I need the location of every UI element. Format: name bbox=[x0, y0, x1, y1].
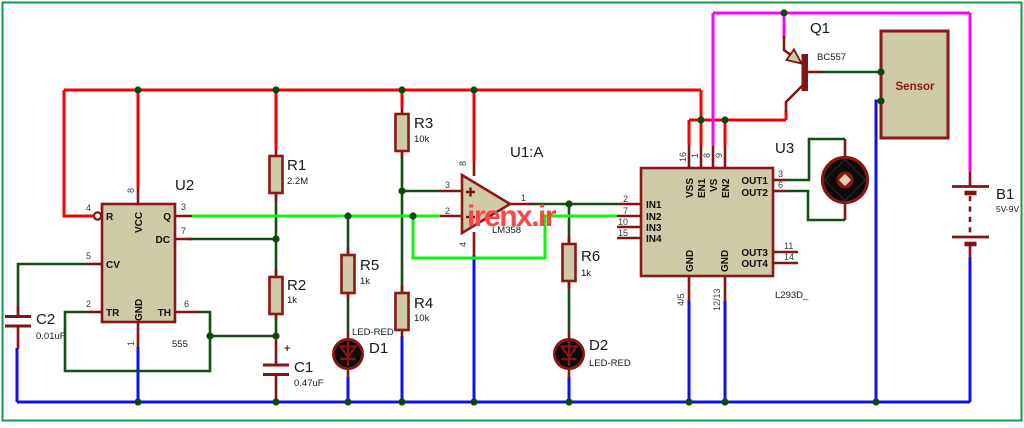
svg-text:CV: CV bbox=[106, 260, 120, 271]
wire magenta drop to battery B1 bbox=[969, 13, 972, 172]
svg-text:IN2: IN2 bbox=[646, 212, 662, 223]
junction VCC rail / R1 bbox=[272, 86, 279, 93]
junction VCC rail / U1 pin8 bbox=[470, 86, 477, 93]
junction ground bus / R4 bbox=[398, 398, 405, 405]
svg-text:4: 4 bbox=[458, 242, 468, 247]
resistor R3 10k bbox=[396, 107, 434, 158]
svg-text:GND: GND bbox=[134, 299, 145, 321]
svg-text:VSS: VSS bbox=[685, 178, 696, 198]
wire green R3 bottom to node bbox=[401, 150, 404, 191]
svg-text:4/5: 4/5 bbox=[676, 293, 686, 306]
svg-text:2: 2 bbox=[86, 299, 91, 309]
capacitor C1 0.47uF polarized bbox=[263, 336, 324, 402]
svg-text:15: 15 bbox=[618, 228, 628, 238]
wire red rail above U3 bbox=[689, 119, 786, 122]
junction ground bus / D1 bbox=[344, 398, 351, 405]
op-amp U1:A LM358 bbox=[440, 144, 543, 256]
wire green R6 bottom to D2 bbox=[568, 282, 571, 333]
555 timer U2 bbox=[86, 177, 199, 350]
junction ground bus / U3 GND 12/13 bbox=[721, 398, 728, 405]
svg-text:D1: D1 bbox=[369, 340, 388, 357]
svg-text:5: 5 bbox=[86, 251, 91, 261]
svg-text:C2: C2 bbox=[36, 311, 55, 328]
svg-text:U1:A: U1:A bbox=[510, 144, 543, 161]
wire magenta drop to Q1 emitter bbox=[783, 13, 786, 38]
wire blue D2 to bus bbox=[568, 377, 571, 402]
svg-text:11: 11 bbox=[784, 241, 793, 251]
wire red bus corner down to U3 rail bbox=[700, 90, 703, 120]
svg-text:7: 7 bbox=[181, 226, 186, 236]
svg-text:Q1: Q1 bbox=[810, 20, 830, 37]
svg-text:R4: R4 bbox=[414, 295, 433, 312]
junction Q output / feedback loop node bbox=[409, 212, 416, 219]
svg-text:4: 4 bbox=[86, 203, 91, 213]
wire green OUT2 to motor bottom bbox=[786, 191, 845, 220]
svg-text:irenx.ir: irenx.ir bbox=[467, 200, 557, 233]
svg-text:0.47uF: 0.47uF bbox=[294, 378, 324, 389]
wire lime feedback loop under U1 bbox=[413, 216, 617, 258]
wire red VCC drop to U2 pin8 bbox=[137, 90, 140, 187]
svg-text:Sensor: Sensor bbox=[896, 81, 936, 93]
svg-text:U2: U2 bbox=[175, 177, 194, 194]
resistor R6 1k bbox=[563, 236, 601, 289]
svg-text:IN3: IN3 bbox=[646, 223, 662, 234]
svg-text:VCC: VCC bbox=[134, 212, 145, 233]
junction Q1 base / sensor bbox=[877, 68, 884, 75]
svg-text:OUT2: OUT2 bbox=[741, 188, 768, 199]
transistor Q1 BC557 PNP bbox=[784, 20, 846, 112]
wire blue sensor to bus bbox=[876, 101, 881, 402]
wire green Q1 base to sensor bbox=[822, 71, 881, 74]
wire green TH junction branch bbox=[210, 335, 276, 338]
junction VCC rail / U2 pin8 bbox=[134, 86, 141, 93]
svg-text:IN4: IN4 bbox=[646, 234, 662, 245]
wire blue battery to bus bbox=[969, 257, 972, 402]
svg-text:10: 10 bbox=[618, 217, 628, 227]
wire magenta top bus bbox=[713, 12, 970, 15]
wire red drop to R1 bbox=[275, 90, 278, 149]
svg-text:U3: U3 bbox=[775, 140, 794, 157]
svg-text:14: 14 bbox=[784, 252, 794, 262]
svg-text:3: 3 bbox=[181, 202, 186, 212]
wire green R2 bottom to junction bbox=[275, 314, 278, 336]
junction ground bus / U2 GND bbox=[134, 398, 141, 405]
svg-text:OUT4: OUT4 bbox=[741, 259, 768, 270]
wire blue R4 to bus bbox=[401, 336, 404, 402]
wire green R5 top tap bbox=[347, 216, 350, 254]
wire blue U2 GND to bus bbox=[137, 347, 140, 402]
svg-text:C1: C1 bbox=[294, 359, 313, 376]
svg-text:L293D_: L293D_ bbox=[775, 290, 809, 301]
svg-text:R6: R6 bbox=[581, 248, 600, 265]
svg-text:1: 1 bbox=[126, 341, 136, 346]
svg-text:1: 1 bbox=[690, 153, 700, 158]
svg-text:R5: R5 bbox=[360, 257, 379, 274]
junction DC node bbox=[272, 235, 279, 242]
svg-text:8: 8 bbox=[702, 153, 712, 158]
svg-text:8: 8 bbox=[458, 161, 468, 166]
svg-text:10k: 10k bbox=[414, 313, 430, 324]
svg-text:1k: 1k bbox=[581, 268, 591, 279]
svg-text:0.01uF: 0.01uF bbox=[36, 331, 66, 342]
junction sensor / ground drop bbox=[877, 97, 884, 104]
svg-text:LED-RED: LED-RED bbox=[352, 327, 394, 338]
svg-text:OUT1: OUT1 bbox=[741, 176, 768, 187]
resistor R1 2.2M bbox=[270, 149, 309, 201]
svg-text:DC: DC bbox=[156, 235, 170, 246]
svg-text:VS: VS bbox=[709, 178, 720, 192]
wire red left drop to U2 pin4 bbox=[64, 90, 93, 216]
svg-text:2: 2 bbox=[623, 194, 628, 204]
svg-text:TH: TH bbox=[158, 308, 171, 319]
svg-text:B1: B1 bbox=[996, 186, 1014, 203]
svg-text:10k: 10k bbox=[414, 134, 430, 145]
svg-text:555: 555 bbox=[172, 339, 188, 350]
junction U1 out / R6 node bbox=[565, 200, 572, 207]
wire red drop to U1 pin8 bbox=[473, 90, 476, 161]
junction TR-TH loop tap bbox=[206, 332, 213, 339]
svg-text:R2: R2 bbox=[287, 277, 306, 294]
wire green CV to C2 bbox=[18, 264, 88, 317]
junction ground bus / D2 bbox=[565, 398, 572, 405]
svg-text:12/13: 12/13 bbox=[712, 288, 722, 311]
wire red top power bus bbox=[64, 89, 701, 92]
wire red EN2 drop bbox=[724, 120, 727, 145]
svg-text:OUT3: OUT3 bbox=[741, 248, 768, 259]
svg-text:GND: GND bbox=[720, 250, 731, 272]
junction ground bus / U3 GND 4/5 bbox=[685, 398, 692, 405]
svg-text:5V-9V: 5V-9V bbox=[996, 204, 1019, 214]
wire green R6 top tap bbox=[568, 204, 571, 243]
sensor block bbox=[881, 31, 948, 138]
svg-text:R: R bbox=[106, 212, 114, 223]
svg-text:1k: 1k bbox=[287, 295, 297, 306]
wire blue bottom ground bus bbox=[17, 401, 970, 404]
LED D2 LED-RED bbox=[555, 332, 631, 378]
svg-text:2: 2 bbox=[445, 206, 450, 216]
svg-text:D2: D2 bbox=[589, 337, 608, 354]
junction VCC rail / R3 bbox=[398, 86, 405, 93]
svg-text:6: 6 bbox=[778, 180, 783, 190]
junction ground bus / sensor bbox=[872, 398, 879, 405]
junction TH / R2 / C1 node bbox=[272, 332, 279, 339]
svg-text:16: 16 bbox=[678, 152, 688, 162]
wire red drop to R3 bbox=[401, 90, 404, 107]
wire red EN1 drop bbox=[700, 120, 703, 145]
svg-text:EN1: EN1 bbox=[697, 178, 708, 198]
wire blue D1 to bus bbox=[347, 377, 350, 402]
svg-text:+: + bbox=[284, 343, 290, 355]
wire blue C2 to bus bbox=[16, 348, 19, 402]
svg-text:GND: GND bbox=[685, 250, 696, 272]
wire lime Q output row bbox=[192, 215, 440, 218]
svg-text:8: 8 bbox=[126, 188, 136, 193]
wire blue U3 GND 12/13 to bus bbox=[724, 301, 727, 402]
svg-text:IN1: IN1 bbox=[646, 200, 662, 211]
wire green TR loop bbox=[65, 312, 210, 371]
wire green node down to R4 bbox=[401, 191, 404, 292]
wire green R1 to R2 column bbox=[275, 193, 278, 278]
svg-text:R3: R3 bbox=[414, 115, 433, 132]
capacitor C2 0.01uF bbox=[5, 305, 66, 349]
motor M (on U3 outputs) bbox=[823, 139, 868, 220]
wire green node to U1 pin3 bbox=[402, 190, 441, 193]
svg-text:TR: TR bbox=[106, 308, 120, 319]
wire red VSS drop bbox=[688, 120, 691, 145]
svg-text:7: 7 bbox=[623, 206, 628, 216]
motor driver U3 L293D bbox=[617, 140, 809, 311]
resistor R4 10k bbox=[396, 285, 434, 337]
LED D1 LED-RED bbox=[334, 327, 394, 378]
svg-text:6: 6 bbox=[184, 299, 189, 309]
svg-text:3: 3 bbox=[778, 169, 783, 179]
wire green U1 output to U3 IN1 bbox=[533, 203, 617, 206]
wire blue U1 pin4 to bus bbox=[473, 255, 476, 402]
junction magenta bus / Q1 emitter bbox=[780, 9, 787, 16]
junction Q output / R5 node bbox=[344, 212, 351, 219]
wire blue U3 GND 4/5 to bus bbox=[688, 301, 691, 402]
junction ground bus / U1 pin4 bbox=[470, 398, 477, 405]
svg-text:3: 3 bbox=[445, 180, 450, 190]
svg-text:EN2: EN2 bbox=[721, 178, 732, 198]
wire red to Q1 collector bbox=[785, 111, 788, 120]
svg-text:9: 9 bbox=[714, 153, 724, 158]
junction R3 / R4 / U1 pin3 node bbox=[398, 187, 405, 194]
wire green R5 bottom to D1 bbox=[347, 294, 350, 333]
junction U3 supply rail / EN1 bbox=[697, 116, 704, 123]
battery B1 5V-9V bbox=[952, 172, 1019, 258]
wire magenta drop to U3 VS pin bbox=[712, 13, 715, 146]
resistor R5 1k bbox=[342, 247, 380, 300]
svg-text:Q: Q bbox=[163, 212, 171, 223]
svg-text:R1: R1 bbox=[287, 157, 306, 174]
junction ground bus / C1 bbox=[272, 398, 279, 405]
svg-text:BC557: BC557 bbox=[817, 52, 846, 63]
resistor R2 1k bbox=[270, 269, 307, 320]
svg-text:LED-RED: LED-RED bbox=[589, 358, 631, 369]
wire green DC to R1-R2 junction bbox=[189, 238, 276, 241]
wire green OUT1 to motor top bbox=[786, 139, 845, 180]
junction U3 supply rail / EN2 bbox=[721, 116, 728, 123]
svg-text:2.2M: 2.2M bbox=[287, 176, 308, 187]
svg-text:1k: 1k bbox=[360, 276, 370, 287]
